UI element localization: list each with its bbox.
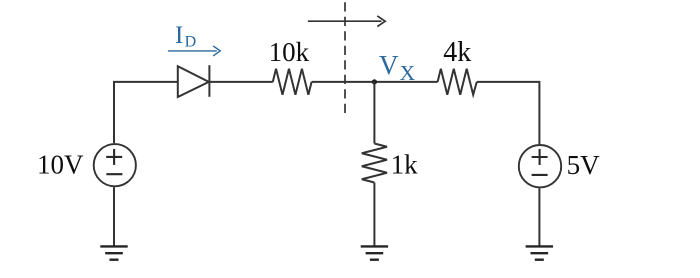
voltage source 5V (519, 145, 561, 187)
label VX (379, 50, 416, 85)
ground (middle) (361, 246, 388, 259)
svg-text:1k: 1k (391, 149, 419, 179)
svg-text:V: V (379, 50, 399, 80)
svg-text:4k: 4k (443, 37, 471, 68)
ground (right) (526, 246, 553, 259)
wire: 5V source to ground (538, 188, 540, 246)
svg-text:I: I (175, 22, 183, 49)
ground (left) (100, 246, 127, 259)
wire: 10k resistor to 4k resistor (through node VX) (312, 81, 438, 83)
resistor 4k (438, 69, 477, 95)
wire: 4k resistor to right rail corner, down to 5V source (477, 82, 540, 144)
wire: node VX down to 1k resistor (373, 82, 375, 144)
diode (178, 65, 210, 97)
resistor 1k (362, 144, 387, 183)
voltage source 10V (94, 144, 136, 186)
wire: 10V source to ground (113, 187, 115, 246)
wire: 1k resistor to middle ground (373, 183, 375, 247)
plus symbol of 10V source (106, 149, 122, 165)
svg-text:10k: 10k (269, 37, 310, 67)
svg-text:10V: 10V (37, 150, 84, 180)
svg-text:5V: 5V (567, 150, 601, 180)
wire: diode cathode to 10k resistor (209, 81, 272, 83)
plus symbol of 5V source (532, 149, 548, 165)
svg-text:D: D (185, 33, 197, 50)
cut line (dashed) (344, 2, 346, 113)
wire: left rail top corner to diode anode (114, 82, 178, 143)
resistor 10k (273, 69, 312, 95)
minus symbol of 10V source (106, 173, 122, 175)
minus symbol of 5V source (532, 174, 548, 176)
current label ID (175, 22, 196, 50)
node VX junction dot (372, 79, 377, 84)
svg-text:X: X (400, 61, 416, 85)
current arrow ID (168, 46, 220, 56)
direction arrow (top) (308, 16, 385, 27)
